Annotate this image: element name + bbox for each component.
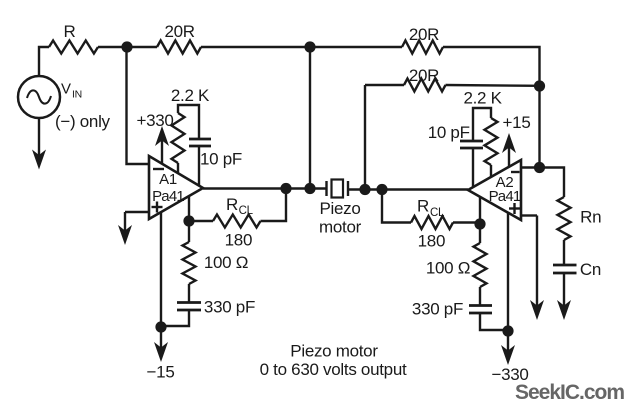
svg-text:Piezo: Piezo [319, 199, 360, 218]
svg-text:330 pF: 330 pF [204, 298, 255, 317]
svg-text:Piezo motor: Piezo motor [290, 342, 378, 361]
svg-text:Cn: Cn [580, 260, 601, 279]
svg-text:10 pF: 10 pF [428, 123, 470, 142]
svg-text:100 Ω: 100 Ω [204, 253, 248, 272]
svg-text:CL: CL [430, 207, 445, 219]
svg-text:Pa41: Pa41 [489, 188, 521, 205]
svg-text:SeekIC.com: SeekIC.com [515, 381, 624, 404]
svg-text:2.2 K: 2.2 K [463, 89, 502, 108]
svg-text:R: R [226, 195, 238, 214]
svg-text:2.2 K: 2.2 K [171, 86, 210, 105]
svg-text:Rn: Rn [580, 208, 601, 227]
svg-text:−15: −15 [147, 363, 175, 382]
svg-text:V: V [61, 81, 71, 98]
svg-text:10 pF: 10 pF [200, 150, 242, 169]
svg-text:180: 180 [225, 231, 252, 250]
svg-text:100 Ω: 100 Ω [426, 259, 470, 278]
svg-text:A1: A1 [159, 171, 177, 188]
svg-text:IN: IN [72, 89, 82, 101]
svg-text:20R: 20R [409, 66, 439, 85]
svg-text:0 to 630 volts output: 0 to 630 volts output [260, 360, 407, 379]
svg-text:330 pF: 330 pF [412, 300, 463, 319]
svg-text:+330: +330 [136, 111, 173, 130]
svg-text:20R: 20R [164, 22, 194, 41]
svg-text:(−) only: (−) only [55, 112, 111, 131]
svg-text:20R: 20R [409, 25, 439, 44]
svg-text:Pa41: Pa41 [152, 188, 184, 205]
svg-text:+15: +15 [503, 113, 531, 132]
svg-text:R: R [64, 22, 76, 41]
svg-text:CL: CL [239, 205, 254, 217]
svg-text:180: 180 [418, 232, 445, 251]
svg-text:motor: motor [319, 218, 362, 237]
svg-text:R: R [417, 197, 429, 216]
